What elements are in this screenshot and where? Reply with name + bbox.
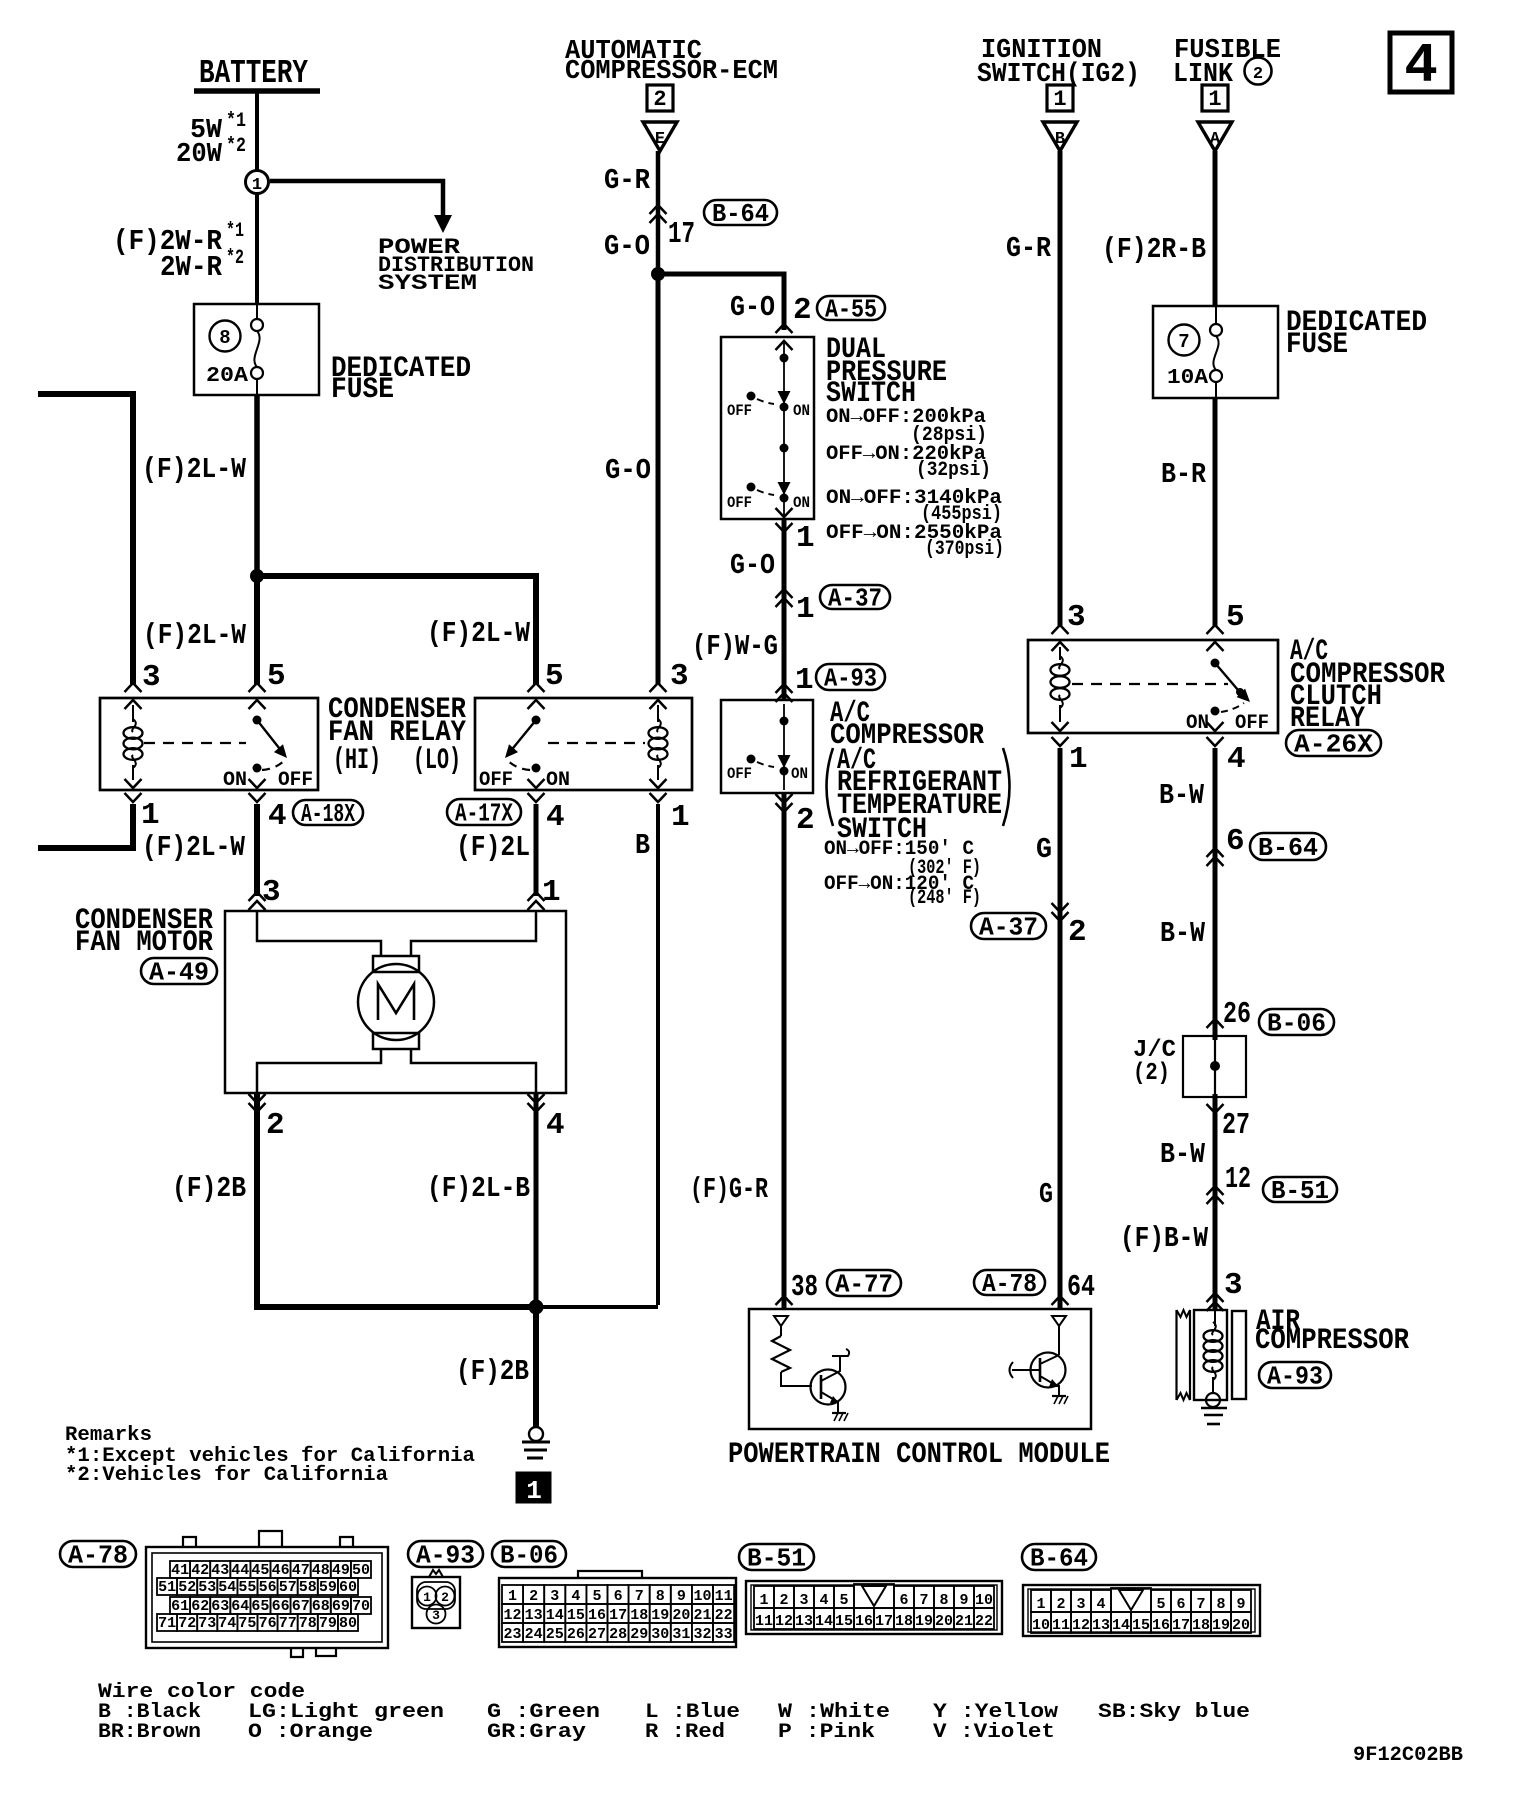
connector chevron pressure switch pin 1 (776, 508, 793, 517)
svg-text:20: 20 (672, 1607, 690, 1624)
svg-text:5: 5 (839, 1592, 848, 1609)
dual pressure switch box (721, 337, 814, 519)
svg-text:57: 57 (279, 1579, 297, 1596)
svg-text:A-37: A-37 (979, 912, 1038, 942)
svg-text:13: 13 (795, 1613, 813, 1630)
junction C dot (651, 267, 665, 281)
temp switch arrow (778, 755, 791, 768)
svg-text:2: 2 (1068, 915, 1087, 950)
big parens around refrigerant switch name (827, 748, 834, 826)
svg-text:12: 12 (1072, 1617, 1090, 1634)
svg-text:26: 26 (1223, 997, 1251, 1032)
wire junction C down to LO relay pin 3 (656, 274, 661, 684)
svg-text:FAN MOTOR: FAN MOTOR (75, 926, 213, 960)
svg-text:ON: ON (223, 769, 247, 792)
wire J/C to air compressor (1213, 1094, 1218, 1310)
svg-text:G: G (1036, 833, 1052, 866)
svg-text:18: 18 (1192, 1617, 1210, 1634)
svg-text:74: 74 (218, 1615, 236, 1632)
svg-text:BATTERY: BATTERY (199, 55, 308, 92)
svg-text:B-R: B-R (1161, 458, 1207, 491)
svg-text:B: B (635, 829, 650, 862)
connector chevrons motor pin 4 (528, 1103, 545, 1112)
svg-text:OFF: OFF (479, 769, 513, 792)
svg-text:65: 65 (251, 1598, 269, 1615)
svg-text:1: 1 (1053, 87, 1066, 112)
svg-text:27: 27 (1222, 1108, 1250, 1143)
svg-text:G-O: G-O (605, 454, 651, 487)
svg-text:A-93: A-93 (416, 1540, 475, 1570)
svg-text:15: 15 (835, 1613, 853, 1630)
svg-text:A-77: A-77 (835, 1269, 893, 1299)
wire junction B to ground (533, 1307, 539, 1427)
pressure switch mid node dot (780, 444, 789, 453)
svg-text:21: 21 (693, 1607, 711, 1624)
svg-text:64: 64 (231, 1598, 249, 1615)
HI relay ON position dot and dashed arc (253, 764, 262, 773)
svg-text:4: 4 (1096, 1596, 1105, 1613)
svg-text:11: 11 (715, 1588, 733, 1605)
condenser fan relay HI box (100, 698, 318, 790)
svg-text:42: 42 (191, 1562, 209, 1579)
svg-text:ON: ON (793, 494, 810, 512)
air compressor ground circle (1206, 1393, 1220, 1407)
connector stadium A-93 air compressor (1259, 1362, 1331, 1388)
svg-text:17: 17 (668, 217, 695, 252)
svg-text:68: 68 (312, 1598, 330, 1615)
svg-text:53: 53 (198, 1579, 216, 1596)
connector B-06 pinout box (499, 1578, 736, 1647)
svg-text:G-O: G-O (730, 549, 775, 582)
dedicated fuse box 7 10A (1153, 306, 1278, 398)
svg-text:43: 43 (211, 1562, 229, 1579)
svg-text:(F)2L-W: (F)2L-W (142, 831, 245, 864)
HI relay contact arm (253, 716, 262, 725)
connector chevrons clutch relay pin 3 (1052, 625, 1069, 634)
connector stadium A-77 (827, 1270, 901, 1296)
svg-text:A-37: A-37 (828, 583, 882, 613)
wire fusible link to dedicated fuse (1213, 151, 1218, 307)
ecm triangle E (643, 122, 677, 151)
svg-text:72: 72 (178, 1615, 196, 1632)
clutch relay contact arm (1211, 659, 1220, 668)
wire fuse to junction A thick (254, 395, 260, 579)
pcm Q1 ground (832, 1412, 846, 1414)
connector chevron 27 (1207, 1104, 1224, 1113)
wire left feed from page edge to HI relay pin 3 (38, 394, 133, 684)
svg-text:COMPRESSOR-ECM: COMPRESSOR-ECM (565, 57, 778, 87)
svg-text:2: 2 (653, 87, 666, 112)
svg-text:16: 16 (855, 1613, 873, 1630)
ground symbol body ground (529, 1427, 543, 1441)
condenser fan relay LO box (475, 698, 692, 790)
svg-text:3: 3 (432, 1608, 440, 1623)
svg-text:5: 5 (592, 1588, 601, 1605)
connector chevrons clutch relay pin 5 (1207, 625, 1224, 634)
svg-text:BR:Brown: BR:Brown (98, 1721, 201, 1744)
svg-text:A-93: A-93 (824, 663, 877, 693)
connector stadium A-17X (447, 799, 521, 825)
ecm connector square 2 (647, 85, 673, 111)
connector chevrons LO relay pin 4 (528, 779, 545, 788)
battery bus bar (194, 88, 320, 94)
LO relay coil (657, 705, 659, 722)
svg-text:*2:Vehicles for California: *2:Vehicles for California (65, 1464, 388, 1487)
svg-text:61: 61 (171, 1598, 189, 1615)
svg-text:69: 69 (332, 1598, 350, 1615)
svg-text:SYSTEM: SYSTEM (378, 271, 477, 296)
wire LO relay pin 4 to motor pin 1 (534, 804, 539, 896)
J/C node dot (1210, 1061, 1220, 1071)
svg-text:Remarks: Remarks (65, 1424, 152, 1447)
wire clutch relay pin1 to pcm pin 64 (1058, 748, 1063, 1308)
pcm resistor R (780, 1326, 782, 1336)
svg-text:14: 14 (546, 1607, 564, 1624)
svg-text:2: 2 (793, 293, 812, 328)
svg-text:8: 8 (219, 327, 230, 349)
svg-text:ON: ON (1186, 712, 1209, 735)
connector chevrons HI relay pin 5 (249, 683, 266, 692)
svg-text:20W: 20W (176, 140, 223, 170)
svg-text:3: 3 (1067, 600, 1086, 635)
svg-text:9: 9 (677, 1588, 686, 1605)
svg-text:2: 2 (779, 1592, 788, 1609)
svg-text:19: 19 (915, 1613, 933, 1630)
connector stadium B-64 pinout (1022, 1544, 1096, 1570)
fusible link circled 2 (1245, 58, 1272, 85)
wire HI relay pin 1 to page edge (38, 804, 133, 848)
HI relay coil-contact dashed link (144, 742, 246, 744)
air compressor right bar (1232, 1311, 1246, 1399)
connector stadium A-18X (293, 800, 363, 825)
junction A dot (250, 569, 264, 583)
svg-text:8: 8 (1216, 1596, 1225, 1613)
svg-text:6: 6 (899, 1592, 908, 1609)
svg-text:A-17X: A-17X (455, 798, 513, 828)
svg-text:62: 62 (191, 1598, 209, 1615)
svg-text:A-26X: A-26X (1294, 729, 1373, 759)
connector chevron pcm pin 38 (776, 1296, 793, 1305)
connector chevrons motor pin 3 (249, 892, 266, 901)
svg-text:O :Orange: O :Orange (248, 1721, 373, 1744)
svg-text:54: 54 (218, 1579, 236, 1596)
svg-text:33: 33 (715, 1626, 733, 1643)
svg-text:41: 41 (171, 1562, 189, 1579)
connector chevrons 1 A-93 (776, 684, 793, 693)
svg-text:1: 1 (252, 176, 262, 195)
svg-text:10: 10 (1032, 1617, 1050, 1634)
svg-text:1: 1 (508, 1588, 517, 1605)
svg-text:17: 17 (875, 1613, 893, 1630)
svg-text:9F12C02BB: 9F12C02BB (1353, 1744, 1463, 1767)
connector chevrons clutch relay pin 1 (1052, 722, 1069, 731)
connector stadium B-51 (1263, 1177, 1337, 1202)
motor terminal block top (373, 956, 419, 972)
svg-text:52: 52 (178, 1579, 196, 1596)
connector chevrons motor pin 1 (528, 892, 545, 901)
pcm input triangle right (1052, 1316, 1066, 1326)
svg-text:4: 4 (571, 1588, 580, 1605)
svg-text:9: 9 (1236, 1596, 1245, 1613)
svg-text:B-W: B-W (1160, 917, 1206, 950)
connector stadium A-93 top (816, 664, 885, 690)
ac refrigerant temperature switch box (721, 700, 813, 793)
svg-text:4: 4 (1227, 742, 1246, 777)
svg-text:3: 3 (1224, 1268, 1243, 1303)
svg-text:73: 73 (198, 1615, 216, 1632)
connector B-51 pinout box (746, 1581, 1002, 1634)
air compressor ground (1201, 1407, 1227, 1410)
wire junction A to HI relay pin 5 (254, 576, 260, 684)
svg-text:1: 1 (1069, 742, 1088, 777)
svg-text:59: 59 (319, 1579, 337, 1596)
svg-text:21: 21 (955, 1613, 973, 1630)
svg-text:16: 16 (1152, 1617, 1170, 1634)
svg-text:14: 14 (815, 1613, 833, 1630)
svg-text:4: 4 (1404, 34, 1438, 98)
svg-text:A: A (1210, 130, 1221, 149)
air compressor clutch pulley belt symbol (1175, 1310, 1177, 1400)
wire node1 to power distribution arrow (270, 181, 443, 216)
svg-text:B-W: B-W (1160, 1138, 1206, 1171)
page number box 4 (1390, 33, 1452, 92)
clutch relay ON dot and dashed arc (1211, 707, 1220, 716)
wire node1 to fuse (255, 193, 259, 305)
pressure switch node dot top (780, 354, 789, 363)
svg-text:*2: *2 (226, 247, 244, 270)
svg-text:2W-R: 2W-R (160, 251, 223, 284)
wire clutch relay pin4 to J/C (1213, 748, 1218, 1040)
svg-text:7: 7 (635, 1588, 644, 1605)
svg-text:R :Red: R :Red (645, 1721, 725, 1744)
svg-text:1: 1 (795, 663, 814, 698)
svg-text:17: 17 (1172, 1617, 1190, 1634)
connector chevrons LO relay pin 3 (650, 683, 667, 692)
LO relay ON position dot and dashed arc (532, 764, 541, 773)
svg-text:17: 17 (609, 1607, 627, 1624)
ground reference black box 1 (516, 1472, 551, 1503)
svg-text:16: 16 (588, 1607, 606, 1624)
motor M circle (358, 964, 434, 1040)
connector chevrons clutch relay pin 4 (1207, 722, 1224, 731)
svg-text:1: 1 (1208, 87, 1221, 112)
svg-text:B-06: B-06 (1267, 1008, 1326, 1038)
svg-text:7: 7 (919, 1592, 928, 1609)
pressure switch 2 arrow (778, 482, 791, 495)
svg-text:(LO): (LO) (413, 744, 461, 778)
svg-text:67: 67 (292, 1598, 310, 1615)
connector chevrons 1 A-37 (776, 589, 793, 598)
svg-text:10: 10 (975, 1592, 993, 1609)
connector chevrons temp switch pin 2 (776, 803, 793, 812)
svg-text:1: 1 (542, 875, 561, 910)
svg-text:48: 48 (312, 1562, 330, 1579)
svg-text:6: 6 (1226, 824, 1245, 859)
svg-text:OFF: OFF (1235, 712, 1269, 735)
connector stadium A-49 (141, 958, 217, 984)
pcm resistor to base wire (781, 1372, 812, 1386)
svg-text:4: 4 (546, 800, 565, 835)
svg-text:25: 25 (546, 1626, 564, 1643)
svg-text:3: 3 (142, 660, 161, 695)
temp switch internal wire (783, 704, 785, 790)
LO relay contact arm (532, 716, 541, 725)
svg-text:G-R: G-R (1006, 232, 1052, 265)
fuse number circle 7 (1169, 325, 1200, 356)
svg-text:51: 51 (158, 1579, 176, 1596)
svg-text:3: 3 (799, 1592, 808, 1609)
svg-text:A-49: A-49 (149, 957, 209, 987)
clutch relay dashed link (1072, 683, 1228, 685)
pressure switch 1 OFF contact (747, 392, 756, 401)
svg-text:13: 13 (525, 1607, 543, 1624)
svg-text:OFF: OFF (278, 769, 313, 792)
connector chevrons 3 air compressor (1207, 1293, 1224, 1302)
svg-text:2: 2 (441, 1590, 449, 1605)
svg-text:12: 12 (503, 1607, 521, 1624)
svg-text:A-78: A-78 (68, 1540, 128, 1570)
air compressor coil (1214, 1310, 1216, 1326)
pressure switch 1 arrow (778, 391, 791, 404)
connector stadium B-64 top (704, 200, 777, 225)
connector chevron pressure switch pin 2 (776, 324, 793, 333)
connector chevrons 2 A-37 G wire (1052, 912, 1069, 921)
svg-text:44: 44 (231, 1562, 249, 1579)
svg-text:26: 26 (567, 1626, 585, 1643)
svg-text:A-93: A-93 (1267, 1361, 1323, 1391)
motor terminal block bottom (373, 1033, 419, 1049)
connector stadium A-37 G wire (971, 913, 1046, 939)
powertrain control module box (749, 1309, 1091, 1429)
wire battery drop to node 1 (255, 93, 259, 172)
temp switch ON dot (780, 767, 789, 776)
svg-text:78: 78 (299, 1615, 317, 1632)
svg-text:4: 4 (546, 1108, 565, 1143)
svg-text:1: 1 (759, 1592, 768, 1609)
wire motor pin 2 down and right to junction B (257, 1094, 536, 1307)
svg-text:12: 12 (1225, 1162, 1251, 1197)
wire pressure switch pin1 to temp switch (782, 519, 787, 700)
svg-text:B-64: B-64 (1258, 833, 1318, 863)
svg-text:5: 5 (267, 659, 286, 694)
svg-text:8: 8 (656, 1588, 665, 1605)
fuse element F1 (256, 305, 258, 319)
wire HI relay pin 4 to motor pin 3 (254, 804, 260, 896)
svg-text:(F)2B: (F)2B (456, 1355, 529, 1388)
connector stadium A-37 pressure (820, 585, 890, 609)
svg-text:6: 6 (1176, 1596, 1185, 1613)
svg-text:ON: ON (791, 765, 808, 783)
connector B-64 pin grid (1031, 1590, 1051, 1612)
pcm Q2 ground (1052, 1395, 1066, 1397)
svg-text:30: 30 (651, 1626, 669, 1643)
connector chevrons 12 B-51 (1207, 1186, 1224, 1195)
svg-text:(F)2L-B: (F)2L-B (427, 1172, 530, 1205)
connector stadium A-93 pinout (408, 1541, 483, 1567)
svg-text:22: 22 (975, 1613, 993, 1630)
svg-text:22: 22 (715, 1607, 733, 1624)
svg-text:1: 1 (423, 1590, 431, 1605)
svg-text:46: 46 (272, 1562, 290, 1579)
connector A-78 pin grid (170, 1561, 190, 1578)
svg-text:*2: *2 (226, 135, 246, 158)
temp switch node dot (780, 717, 789, 726)
fusible triangle A (1198, 122, 1232, 151)
node 1 junction circle (246, 171, 269, 194)
svg-text:(370psi): (370psi) (925, 538, 1004, 561)
svg-text:1: 1 (671, 800, 690, 835)
svg-text:A-18X: A-18X (301, 799, 355, 829)
pcm transistor Q1 (811, 1370, 846, 1405)
wire temp switch to pcm pin 38 (782, 793, 787, 1308)
connector stadium B-06 (1259, 1009, 1334, 1035)
svg-text:POWERTRAIN CONTROL MODULE: POWERTRAIN CONTROL MODULE (728, 1438, 1110, 1472)
svg-text:49: 49 (332, 1562, 350, 1579)
svg-text:*1: *1 (226, 220, 244, 243)
svg-text:18: 18 (895, 1613, 913, 1630)
fuse number circle 8 (210, 321, 241, 352)
connector stadium A-26X (1286, 730, 1381, 756)
svg-text:80: 80 (339, 1615, 357, 1632)
svg-text:60: 60 (339, 1579, 357, 1596)
svg-text:58: 58 (299, 1579, 317, 1596)
connector A-78 pinout box (146, 1547, 388, 1648)
svg-text:11: 11 (755, 1613, 773, 1630)
svg-text:20: 20 (935, 1613, 953, 1630)
air compressor coil box (1194, 1310, 1227, 1400)
junction connector J/C box (1183, 1036, 1246, 1097)
svg-text:20A: 20A (206, 365, 248, 388)
dedicated fuse box 8 20A (194, 304, 319, 395)
svg-text:45: 45 (251, 1562, 269, 1579)
svg-text:15: 15 (1132, 1617, 1150, 1634)
svg-text:3: 3 (1076, 1596, 1085, 1613)
svg-text:(248' F): (248' F) (908, 887, 981, 910)
LO relay coil-contact dashed link (548, 742, 645, 744)
svg-text:(32psi): (32psi) (916, 459, 991, 482)
connector chevrons 17 B-64 (650, 205, 667, 214)
svg-text:B: B (1055, 130, 1065, 149)
ignition connector square 1 (1047, 85, 1073, 111)
pressure switch 2 ON dot (780, 494, 789, 503)
svg-text:4: 4 (819, 1592, 828, 1609)
condenser fan motor box (225, 911, 566, 1093)
svg-text:(F)2B: (F)2B (172, 1172, 246, 1205)
svg-text:(F)2L-W: (F)2L-W (142, 453, 247, 486)
svg-text:77: 77 (279, 1615, 297, 1632)
svg-text:B-06: B-06 (500, 1540, 558, 1570)
wire ecm to junction C (656, 151, 661, 274)
svg-text:28: 28 (609, 1626, 627, 1643)
connector chevrons HI relay pin 3 (125, 683, 142, 692)
svg-text:(F)2L-W: (F)2L-W (143, 619, 246, 652)
temp switch OFF contact (747, 755, 756, 764)
connector chevrons LO relay pin 1 (650, 779, 667, 788)
svg-text:(F)W-G: (F)W-G (692, 630, 778, 663)
svg-text:B-W: B-W (1159, 779, 1205, 812)
svg-text:8: 8 (939, 1592, 948, 1609)
svg-text:19: 19 (651, 1607, 669, 1624)
svg-text:47: 47 (292, 1562, 310, 1579)
connector chevrons HI relay pin 4 (249, 779, 266, 788)
svg-text:*1: *1 (226, 110, 246, 133)
motor internal wiring top (257, 911, 381, 956)
connector stadium A-78 pinout (60, 1541, 136, 1567)
svg-text:24: 24 (525, 1626, 543, 1643)
wire junction A to LO relay pin 5 (257, 576, 536, 684)
svg-text:(2): (2) (1133, 1060, 1170, 1087)
connector stadium B-06 pinout (492, 1541, 566, 1567)
